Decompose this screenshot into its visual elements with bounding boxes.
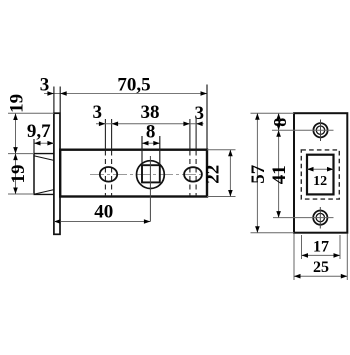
centerline through holes (side view) [90, 174, 204, 176]
screw hole bottom [313, 211, 327, 225]
strike plate (front view) [294, 113, 347, 233]
svg-text:9,7: 9,7 [27, 121, 51, 142]
dim 12 (hole width front) [307, 168, 334, 170]
screw hole top [313, 123, 327, 137]
dim 17 (hole band width) [302, 235, 341, 259]
svg-text:40: 40 [94, 201, 113, 222]
dim 40 (faceplate to square center) [54, 221, 150, 223]
svg-text:41: 41 [269, 165, 290, 184]
svg-text:70,5: 70,5 [117, 75, 150, 96]
svg-text:3: 3 [195, 103, 205, 124]
square spindle hole (side view) [142, 165, 160, 182]
svg-text:22: 22 [203, 165, 224, 184]
dim 9,7 (bolt projection) [34, 142, 54, 144]
svg-text:8: 8 [270, 118, 290, 127]
svg-text:3: 3 [40, 75, 50, 96]
svg-text:25: 25 [313, 259, 329, 276]
latch body (side view) [60, 150, 207, 197]
svg-text:19: 19 [8, 165, 29, 184]
dim row 3 / 38 / 3 (hole offsets) [96, 123, 204, 125]
dashed clearance rectangle [301, 150, 339, 199]
dim 8 (square hole width, side view) [142, 142, 160, 144]
dim 19 top and 19 bottom (left edge) [8, 113, 54, 194]
vertical centerline through square hole down to dim 40 [149, 156, 151, 222]
screw bottom centerline / extension [273, 217, 334, 219]
center hole circle [137, 161, 165, 189]
latch bolt (side view) [33, 154, 54, 195]
dim 8 (top edge to screw center) and 41 (screw spacing) [278, 113, 280, 217]
dim 22 (body height) [207, 150, 236, 197]
left hole hidden lines [105, 119, 111, 196]
svg-text:3: 3 [93, 102, 103, 123]
faceplate (side view) [54, 113, 60, 234]
right hole hidden lines [190, 119, 196, 196]
svg-text:12: 12 [313, 174, 327, 189]
svg-text:17: 17 [313, 239, 329, 256]
left hole [100, 167, 117, 182]
svg-text:19: 19 [7, 94, 28, 113]
svg-text:57: 57 [248, 164, 269, 184]
dim 57 (plate height) [251, 113, 295, 233]
screw top centerline / extension [272, 129, 334, 131]
dim 25 (plate width) [294, 234, 347, 281]
dim 3 (faceplate thickness) and 70,5 (body length) [44, 93, 207, 95]
square hole (front view) [307, 155, 334, 195]
svg-text:38: 38 [141, 102, 160, 123]
svg-text:8: 8 [146, 121, 156, 142]
right hole [184, 167, 202, 181]
